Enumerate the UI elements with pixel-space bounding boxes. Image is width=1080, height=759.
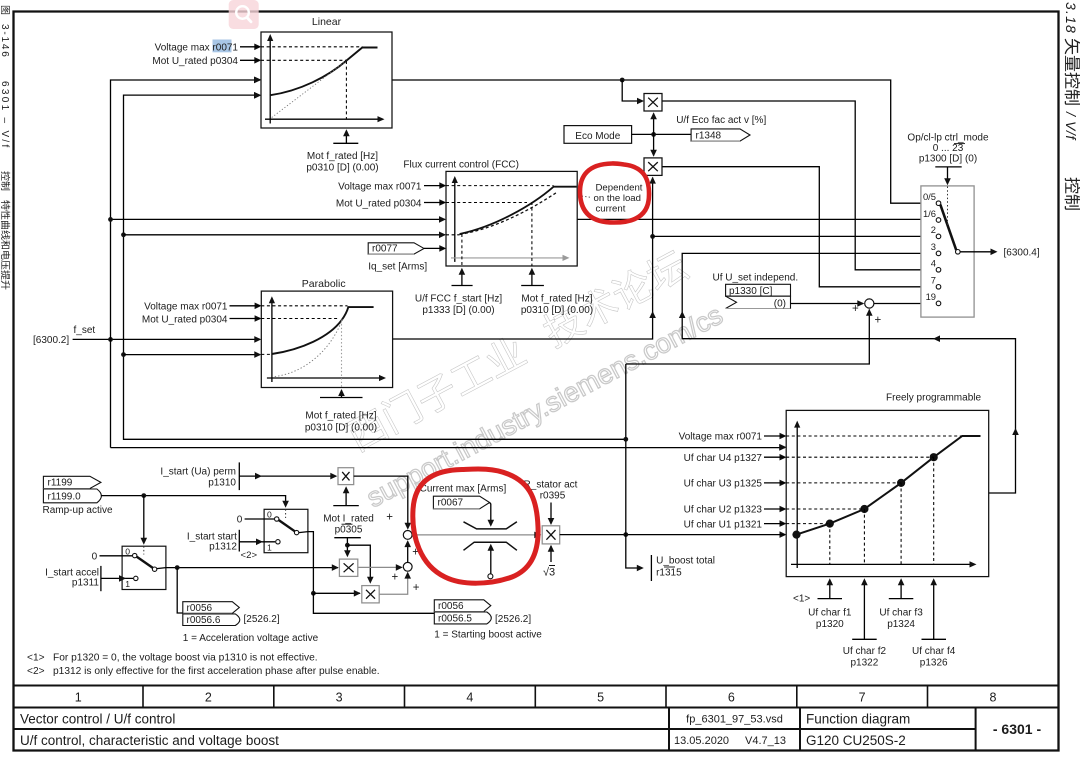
- freely curve point 4: [930, 453, 938, 461]
- wire ramp-up active control: [101, 496, 286, 502]
- svg-text:1: 1: [267, 543, 272, 553]
- svg-text:Mot U_rated p0304: Mot U_rated p0304: [336, 199, 422, 210]
- freely dashed verticals: [829, 524, 831, 564]
- wire S1 output to r0056.6 flag: [177, 568, 183, 613]
- connector flag r1348: [691, 129, 750, 141]
- parameter bar p1312: [238, 530, 240, 552]
- svg-text:[2526.2]: [2526.2]: [244, 614, 280, 625]
- svg-text:Ramp-up active: Ramp-up active: [43, 505, 113, 516]
- wire FCC output to multiplexer input 1/6: [577, 218, 934, 221]
- svg-text:Uf char f3: Uf char f3: [879, 608, 923, 619]
- junction p0305 to U4 and U6: [345, 543, 350, 548]
- freely dashed levels: [786, 435, 962, 437]
- wire junction to r0056.5 flag: [313, 593, 434, 613]
- svg-text:G120 CU250S-2: G120 CU250S-2: [806, 733, 906, 748]
- connector flag r0056 (starting): [434, 600, 491, 612]
- linear dashed level r0071: [261, 46, 362, 48]
- red annotation circle around Dependent on load current: [580, 163, 649, 222]
- svg-text:U/f FCC f_start [Hz]: U/f FCC f_start [Hz]: [415, 294, 502, 305]
- svg-text:Uf U_set independ.: Uf U_set independ.: [713, 272, 799, 283]
- svg-text:p0310 [D] (0.00): p0310 [D] (0.00): [306, 163, 378, 174]
- svg-text:1: 1: [125, 579, 130, 589]
- mux output wire: [960, 251, 995, 253]
- parabolic dotted vertical f_rated (gray): [341, 321, 343, 388]
- sqrt3 arrow into U5: [550, 546, 552, 562]
- freely x-axis: [791, 563, 970, 565]
- freely curve point 3: [897, 479, 905, 487]
- fcc x-axis (gray): [451, 257, 564, 259]
- svg-text:p1320: p1320: [816, 619, 844, 630]
- junction Linear output branch: [620, 78, 625, 83]
- parameter Uf char f1: [818, 580, 843, 599]
- svg-text:[6300.4]: [6300.4]: [1004, 248, 1040, 259]
- mux terminal 4: [936, 268, 941, 273]
- wire Parabolic output riser to U2: [393, 178, 653, 340]
- svg-text:0: 0: [125, 546, 130, 556]
- svg-text:<1>: <1>: [27, 653, 45, 664]
- wire p1311 to S1: [101, 577, 133, 579]
- svg-text:0 ... 23: 0 ... 23: [933, 143, 964, 154]
- multiplier U3: [338, 468, 354, 485]
- wire f_set: [73, 338, 260, 340]
- svg-text:Vector control / U/f control: Vector control / U/f control: [20, 712, 175, 727]
- fcc input arrows: [439, 182, 446, 189]
- linear x-axis: [265, 118, 379, 120]
- svg-text:U/f Eco fac act v [%]: U/f Eco fac act v [%]: [676, 115, 766, 126]
- svg-text:Parabolic: Parabolic: [302, 278, 346, 290]
- wire multiplier U2 output to multiplexer input 7: [662, 167, 934, 287]
- svg-text:p0310 [D] (0.00): p0310 [D] (0.00): [305, 423, 377, 434]
- block Freely programmable characteristic: [786, 410, 989, 576]
- parameter p1300 control arrow: [935, 167, 961, 179]
- parabolic solid curve: [272, 307, 374, 354]
- wire U4 output to adder B: [358, 566, 401, 568]
- svg-text:I_start (Ua) perm: I_start (Ua) perm: [160, 467, 236, 478]
- svg-text:<2>: <2>: [27, 666, 45, 677]
- svg-text:p1326: p1326: [920, 658, 948, 669]
- svg-text:p1312 is only effective for th: p1312 is only effective for the first ac…: [53, 666, 380, 677]
- svg-text:0/5: 0/5: [923, 191, 936, 202]
- connector flag r1199.0: [43, 489, 101, 503]
- wire U3 to adder A: [354, 476, 408, 528]
- wire bus2 boost feedback vertical: [124, 95, 626, 439]
- S2 terminal 1: [276, 540, 280, 544]
- parameter Uf char f3: [889, 580, 914, 599]
- wire bus1 f_set vertical distribution: [111, 80, 261, 448]
- connector flag r0056.5: [434, 612, 491, 624]
- svg-text:Voltage max r0071: Voltage max r0071: [144, 301, 228, 312]
- wire r0077 to fcc: [424, 247, 445, 249]
- limiter Current max symbol: [464, 522, 517, 529]
- svg-text:Mot U_rated p0304: Mot U_rated p0304: [142, 314, 228, 325]
- svg-text:4: 4: [466, 691, 473, 705]
- linear dotted reference diagonal: [272, 61, 347, 118]
- junction bus1 FCC branch: [108, 217, 113, 222]
- adder B: [403, 562, 412, 571]
- svg-text:U_boost total: U_boost total: [656, 556, 715, 567]
- svg-text:+: +: [852, 303, 859, 315]
- freely curve point 2: [860, 505, 868, 513]
- wire bus1 to Freely programmable input: [111, 447, 786, 449]
- parameter Mot f_rated arrow into Linear: [333, 131, 358, 143]
- parameter U/f FCC f_start arrow: [452, 270, 473, 286]
- svg-text:1/6: 1/6: [923, 208, 936, 219]
- svg-text:For p1320 = 0, the voltage boo: For p1320 = 0, the voltage boost via p13…: [53, 653, 318, 664]
- svg-text:r0067: r0067: [438, 498, 464, 509]
- mux terminal 7: [936, 285, 941, 290]
- svg-text:r0056.6: r0056.6: [187, 615, 221, 626]
- wire adder to multiplexer input 19: [874, 303, 934, 305]
- watermark: siemens forum diagonal text: [344, 246, 691, 453]
- wire Eco Mode to r1348: [632, 133, 692, 135]
- svg-text:1 = Acceleration voltage activ: 1 = Acceleration voltage active: [183, 633, 319, 644]
- multiplier U2 (parabolic x eco): [644, 158, 662, 176]
- mux terminal 19: [936, 301, 941, 306]
- fcc dashed level r0071: [446, 185, 554, 187]
- svg-text:r1315: r1315: [656, 568, 682, 579]
- wire r0067 to limiter: [490, 503, 491, 526]
- junction ramp control: [141, 493, 146, 498]
- svg-text:U/f control, characteristic an: U/f control, characteristic and voltage …: [20, 733, 279, 748]
- svg-text:0: 0: [267, 510, 272, 520]
- mux terminal 1/6: [936, 218, 941, 223]
- svg-text:2: 2: [931, 224, 936, 235]
- parameter Uf char f4: [922, 580, 947, 639]
- mux common contact: [956, 250, 961, 255]
- svg-text:Mot U_rated p0304: Mot U_rated p0304: [152, 56, 238, 67]
- svg-text:Flux current control (FCC): Flux current control (FCC): [403, 159, 519, 170]
- svg-text:+: +: [392, 571, 399, 583]
- connector flag r0056.6: [183, 614, 240, 626]
- svg-text:Function diagram: Function diagram: [806, 712, 910, 727]
- svg-text:2: 2: [205, 691, 212, 705]
- svg-text:Uf char U1 p1321: Uf char U1 p1321: [684, 519, 763, 530]
- fcc solid curve: [460, 187, 577, 234]
- S1 terminal 1: [134, 576, 138, 580]
- parameter box p1330: [726, 284, 791, 296]
- parameter parabolic Mot f_rated arrow: [320, 391, 363, 398]
- wire Linear output to multiplexer input 0/5: [392, 80, 934, 203]
- parabolic dotted reference curve: [275, 319, 343, 377]
- wire boost vertical (to bus2, adder19, r1315): [626, 364, 642, 568]
- parabolic input arrows: [255, 303, 262, 310]
- parameter bar p1310: [238, 462, 240, 490]
- parabolic y-axis: [271, 302, 273, 382]
- parameter r0395 arrow into U5: [550, 503, 552, 524]
- svg-text:Uf char f1: Uf char f1: [808, 608, 852, 619]
- S1 arm: [137, 557, 153, 568]
- svg-text:Voltage max r0071: Voltage max r0071: [338, 182, 422, 193]
- svg-text:/ V/f: / V/f: [1063, 111, 1079, 141]
- svg-text:p1311: p1311: [72, 577, 100, 588]
- S1 terminal 0: [133, 553, 137, 557]
- parabolic dashed level p0304: [261, 318, 339, 320]
- mux terminal 2: [936, 234, 941, 239]
- svg-text:Mot I_rated: Mot I_rated: [323, 514, 374, 525]
- svg-text:19: 19: [926, 291, 936, 302]
- svg-text:r0077: r0077: [372, 244, 398, 255]
- svg-text:p1310: p1310: [208, 478, 236, 489]
- svg-text:r0395: r0395: [540, 491, 566, 502]
- svg-text:3.18: 3.18: [1063, 2, 1079, 34]
- fcc dashed level input4: [446, 234, 460, 236]
- svg-text:r0056: r0056: [187, 603, 213, 614]
- mux terminal 0/5: [936, 201, 941, 206]
- svg-text:(0): (0): [774, 298, 786, 309]
- svg-text:4: 4: [931, 258, 936, 269]
- svg-text:7: 7: [859, 691, 866, 705]
- svg-text:Mot f_rated [Hz]: Mot f_rated [Hz]: [305, 411, 376, 422]
- parameter Uf char f2: [852, 580, 877, 639]
- connector r1315 U_boost total: [650, 555, 652, 581]
- block Flux current control (FCC): [446, 171, 577, 266]
- svg-text:p0310 [D] (0.00): p0310 [D] (0.00): [521, 305, 593, 316]
- wire p1310 to U3: [239, 475, 336, 477]
- svg-text:Uf char f2: Uf char f2: [843, 646, 887, 657]
- parabolic dotted level input4: [261, 353, 272, 355]
- S2 terminal 0: [275, 517, 279, 521]
- svg-text:r1199.0: r1199.0: [48, 491, 82, 502]
- wire U6 output to adder B: [379, 573, 408, 594]
- parameter Mot I_rated p0305 upper bar: [333, 488, 359, 506]
- connector flag r0067: [433, 496, 489, 509]
- svg-text:Eco Mode: Eco Mode: [575, 131, 620, 142]
- mux terminal 3: [936, 251, 941, 256]
- svg-text:[2526.2]: [2526.2]: [495, 614, 531, 625]
- svg-text:p1333 [D] (0.00): p1333 [D] (0.00): [422, 305, 494, 316]
- junction bus2 FCC branch: [121, 232, 126, 237]
- svg-text:p0305: p0305: [335, 524, 363, 535]
- switch S2 I_start start: [264, 509, 308, 552]
- svg-text:r0056: r0056: [438, 601, 464, 612]
- freely input arrows: [780, 433, 787, 440]
- title block table: [14, 686, 1059, 751]
- svg-text:3-146: 3-146: [0, 24, 10, 59]
- limiter lower arrow: [490, 546, 492, 574]
- svg-text:7: 7: [931, 275, 936, 286]
- freely characteristic curve: [797, 436, 981, 535]
- connector flag r0056 (acceleration): [183, 602, 240, 614]
- connector flag r0077: [368, 243, 424, 254]
- svg-text:Voltage max r0071: Voltage max r0071: [679, 432, 763, 443]
- svg-text:0: 0: [92, 552, 98, 563]
- linear dashed vertical f_rated: [345, 61, 347, 119]
- S1 dashed control: [143, 546, 145, 554]
- block Eco Mode: [564, 126, 632, 144]
- fcc dashed level p0304: [446, 202, 527, 204]
- svg-text:r0056.5: r0056.5: [438, 613, 472, 624]
- svg-text:p1324: p1324: [887, 619, 915, 630]
- svg-text:+: +: [413, 582, 420, 594]
- wire multiplier U1 output to multiplexer input 4: [662, 101, 934, 270]
- adder A: [403, 531, 412, 540]
- wire U5 output to Freely programmable: [560, 534, 785, 536]
- linear input arrows: [254, 44, 261, 51]
- svg-text:+: +: [386, 512, 393, 524]
- fcc y-axis: [454, 182, 456, 262]
- svg-text:5: 5: [597, 691, 604, 705]
- connector flag r1199: [43, 476, 101, 488]
- wire Freely programmable output to multiplexer input 3: [682, 253, 1015, 493]
- parabolic x-axis: [267, 377, 380, 379]
- svg-text:6: 6: [728, 691, 735, 705]
- svg-text:Linear: Linear: [312, 16, 342, 28]
- mux control dotted line: [947, 187, 949, 225]
- pink screenshot badge with magnifier: [229, 0, 259, 29]
- svg-text:√3: √3: [543, 567, 555, 579]
- svg-text:p1300 [D] (0): p1300 [D] (0): [919, 154, 977, 165]
- wire ramp control to S1: [143, 496, 145, 539]
- svg-text:3: 3: [931, 241, 936, 252]
- parameter bar p1311: [100, 566, 102, 591]
- linear y-axis: [269, 40, 271, 124]
- red annotation circle around Current max limiter: [413, 469, 538, 583]
- junction f_set / bus1: [108, 337, 113, 342]
- junction Parabolic riser to mux 2: [650, 234, 655, 239]
- multiplier U5: [542, 526, 560, 544]
- freely curve point 1: [826, 520, 834, 528]
- wire bus2 to FCC input 4: [124, 234, 445, 236]
- svg-text:Op/cl-lp ctrl_mode: Op/cl-lp ctrl_mode: [907, 133, 989, 144]
- left margin caption (figure number, rotated): [0, 6, 10, 290]
- junction boost output: [623, 532, 628, 537]
- svg-text:6301 – V/f: 6301 – V/f: [0, 81, 10, 150]
- svg-text:Voltage max r0071: Voltage max r0071: [155, 43, 239, 54]
- block Parabolic characteristic: [261, 291, 392, 387]
- svg-text:Mot f_rated [Hz]: Mot f_rated [Hz]: [307, 151, 378, 162]
- linear curve: [270, 48, 378, 96]
- svg-text:13.05.2020: 13.05.2020: [674, 735, 729, 747]
- svg-text:V4.7_13: V4.7_13: [745, 735, 786, 747]
- wire Eco factor to U2: [653, 134, 655, 155]
- svg-text:Dependent: Dependent: [596, 183, 643, 194]
- multiplexer p1300 selector: [921, 186, 974, 317]
- fcc dashed vertical f_start: [461, 234, 463, 266]
- S2 dashed control: [285, 509, 287, 518]
- svg-text:0: 0: [237, 515, 243, 526]
- multiplier U1 (linear x eco): [644, 94, 662, 112]
- svg-text:r1199: r1199: [48, 478, 73, 489]
- svg-text:r1348: r1348: [696, 130, 722, 141]
- fcc dashed vertical f_rated: [531, 202, 533, 266]
- freely y-axis: [796, 427, 798, 568]
- multiplier U4: [339, 559, 357, 576]
- svg-text:f_set: f_set: [74, 325, 96, 336]
- svg-text:p1330 [C]: p1330 [C]: [729, 286, 773, 297]
- wire S2 output down to U6: [299, 532, 314, 594]
- svg-text:Freely programmable: Freely programmable: [886, 393, 981, 404]
- wire junction to U6 input: [313, 592, 360, 594]
- junction Eco factor: [651, 132, 656, 137]
- label Voltage max r0071 (highlighted): [213, 40, 232, 53]
- svg-text:Uf char f4: Uf char f4: [912, 646, 956, 657]
- wire bus2 to Parabolic input 4: [124, 354, 261, 356]
- junction bus2 Parabolic branch: [121, 352, 126, 357]
- wire p1330 to adder: [791, 303, 864, 305]
- svg-text:- 6301 -: - 6301 -: [993, 721, 1042, 737]
- right margin caption (chapter title, rotated italic): [1063, 2, 1080, 210]
- svg-text:[6300.2]: [6300.2]: [33, 335, 69, 346]
- freely curve point 0: [792, 531, 800, 539]
- wire to multiplexer input 2: [653, 235, 934, 237]
- switch S1 I_start accel: [122, 546, 166, 589]
- wire adder A through limiter to U5 (gray): [412, 534, 539, 536]
- linear dashed level p0304: [261, 59, 346, 61]
- S2 arm: [279, 520, 295, 531]
- svg-text:3: 3: [336, 691, 343, 705]
- wire p1312 to S2: [239, 541, 275, 543]
- svg-text:R_stator act: R_stator act: [524, 480, 578, 491]
- wire boost to adder: [626, 310, 870, 365]
- parameter fcc Mot f_rated arrow: [521, 270, 544, 286]
- svg-text:8: 8: [990, 691, 997, 705]
- wire S1 output to U4: [157, 568, 338, 569]
- svg-text:1 = Starting boost active: 1 = Starting boost active: [434, 629, 542, 640]
- svg-text:Uf char U4 p1327: Uf char U4 p1327: [684, 453, 763, 464]
- multiplier U6: [362, 586, 379, 603]
- wire adder B to adder A: [407, 542, 409, 563]
- svg-text:Uf char U2 p1323: Uf char U2 p1323: [684, 505, 763, 516]
- svg-text:p1322: p1322: [850, 658, 878, 669]
- svg-text:fp_6301_97_53.vsd: fp_6301_97_53.vsd: [686, 714, 783, 726]
- svg-text:current: current: [596, 204, 626, 215]
- svg-text:<2>: <2>: [241, 550, 258, 561]
- block Linear characteristic: [261, 32, 392, 128]
- dotted leader from FCC dashed curve: [558, 193, 593, 198]
- svg-text:<1>: <1>: [793, 594, 810, 605]
- fcc dashed curve (load dependent): [460, 192, 557, 234]
- parameter p0305 lower bar: [334, 538, 361, 556]
- svg-text:on the load: on the load: [594, 193, 641, 204]
- svg-text:Current max [Arms]: Current max [Arms]: [420, 484, 507, 495]
- junction S1 output: [175, 565, 180, 570]
- wire bus1 to FCC input 3: [111, 218, 445, 220]
- wire Eco factor to U1: [653, 114, 655, 135]
- svg-text:Uf char U3 p1325: Uf char U3 p1325: [684, 479, 763, 490]
- wire Linear output branch to multiplier U1: [622, 80, 642, 101]
- parameter flag p1330 value (0): [726, 296, 791, 308]
- svg-text:1: 1: [75, 691, 82, 705]
- svg-text:Iq_set [Arms]: Iq_set [Arms]: [368, 261, 427, 272]
- junction boost to bus2: [623, 437, 628, 442]
- svg-text:p1312: p1312: [209, 541, 237, 552]
- mux switch arm: [940, 205, 956, 251]
- wire p0305 to U6: [347, 545, 370, 582]
- junction S2 output: [311, 591, 316, 596]
- adder (U_set + boost): [865, 299, 874, 308]
- svg-text:Mot f_rated [Hz]: Mot f_rated [Hz]: [521, 294, 592, 305]
- svg-text:+: +: [875, 315, 882, 327]
- parabolic dashed level r0071: [261, 305, 347, 307]
